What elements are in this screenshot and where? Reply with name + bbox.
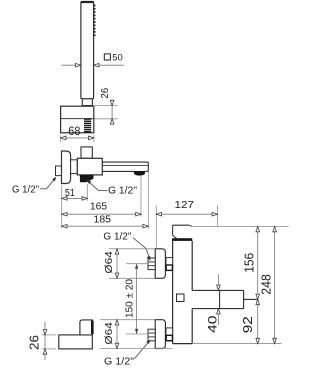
dimension 185 arrows <box>62 224 67 228</box>
handshower head top edge (thick) <box>81 1 94 3</box>
leader G 1/2 bottom <box>135 342 150 359</box>
svg-text:50: 50 <box>112 52 123 63</box>
dimension 127 arrows <box>156 212 161 216</box>
svg-text:Ø64: Ø64 <box>103 251 115 274</box>
svg-text:156: 156 <box>242 253 256 273</box>
dimension 127 left extension <box>155 205 157 249</box>
dimension 40 lower line <box>217 309 219 325</box>
bracket clip (dark) <box>91 321 94 334</box>
dimension 92 arrows <box>256 299 260 304</box>
dimension 92 line <box>257 299 259 343</box>
dimension 26 extension line lower <box>94 118 117 120</box>
dimension diam64 top arrows <box>115 249 119 254</box>
dimension 51/165/185 common left extension <box>61 185 63 228</box>
wall flange (escutcheon, side) <box>62 151 71 184</box>
dimension 26 arrows <box>43 330 47 335</box>
bottom extension line <box>192 343 281 345</box>
svg-text:G 1/2": G 1/2" <box>104 357 134 368</box>
dimension 51 line <box>62 197 88 199</box>
dimension 127 right extension <box>216 205 218 226</box>
bottom union center line <box>126 333 148 335</box>
leader arrow G 1/2 bottom <box>146 340 150 344</box>
dimension diam64 top line <box>116 249 118 278</box>
top union connector lower detail <box>166 265 172 270</box>
dimension square-50 arrow left <box>76 63 81 67</box>
shower holder block <box>61 106 94 133</box>
body left edge <box>172 241 174 344</box>
hose nipple below body (dark) <box>80 175 94 182</box>
dimension 165 line <box>62 213 141 215</box>
svg-text:92: 92 <box>240 316 255 333</box>
top extension line (reference for 156/248) <box>192 226 289 228</box>
aerator (dark) <box>134 171 145 176</box>
body top step edge <box>173 224 190 226</box>
dimension 26 arrow upper <box>110 100 114 105</box>
svg-text:G 1/2": G 1/2" <box>103 232 131 243</box>
dimension 68 extension left <box>60 135 62 142</box>
spray nozzle dashes on right edge <box>94 5 96 36</box>
top union escutcheon <box>155 249 165 278</box>
dimension 40 arrows <box>217 285 221 290</box>
chamfer to dark band <box>173 235 177 238</box>
dimension 185 line <box>62 225 149 227</box>
spout inner edge <box>219 290 221 308</box>
bracket arm <box>59 335 93 349</box>
dimension 26 arrow lower <box>110 119 114 124</box>
dimension 68 line <box>61 137 94 139</box>
svg-text:127: 127 <box>175 200 195 211</box>
dimension 165 right extension <box>140 176 142 217</box>
holder stem stub on body top <box>81 147 92 158</box>
dimension 150+-20 arrows <box>135 264 138 269</box>
spout center stub line <box>244 298 258 300</box>
dimension 26 extension upper <box>42 334 57 336</box>
leader G 1/2 top <box>133 238 149 258</box>
bottom union connector lower detail <box>166 335 172 340</box>
svg-text:G 1/2": G 1/2" <box>108 185 137 196</box>
body bottom edge <box>173 343 193 345</box>
holder block inner line <box>61 118 94 120</box>
leader G 1/2 left <box>40 178 55 189</box>
dimension diam64 bottom line <box>116 320 118 349</box>
spout end edge <box>147 162 149 171</box>
bottom union nut <box>148 329 155 341</box>
svg-text:165: 165 <box>90 202 107 213</box>
dimension 40 upper line <box>217 274 219 290</box>
dimension 51 arrows <box>62 197 67 201</box>
dimension 248 arrows <box>273 227 277 232</box>
dimension diam64 bottom: extensions <box>100 319 155 321</box>
small square detail on body <box>177 294 185 302</box>
svg-text:185: 185 <box>94 214 112 225</box>
spout end edge <box>243 290 245 308</box>
dimension 165 arrows <box>62 212 67 216</box>
top union nut <box>148 258 155 270</box>
spout bottom line after aerator <box>145 170 148 172</box>
body right edge upper <box>191 241 193 291</box>
bottom union connector <box>166 328 173 341</box>
dimension 185 right extension (from spout tip) <box>147 171 149 229</box>
dimension 156 line <box>257 227 259 300</box>
leader arrow G 1/2 right <box>86 180 91 184</box>
top union nut facet lines <box>148 261 155 263</box>
bracket cup <box>80 320 92 335</box>
neck between flange and body <box>71 160 78 174</box>
dimension 26 line <box>111 100 113 125</box>
svg-text:G 1/2": G 1/2" <box>12 184 39 195</box>
dimension diam64 bottom arrows <box>115 320 119 325</box>
handshower handle <box>81 2 94 99</box>
dimension 68 extension right <box>93 135 95 142</box>
spout inner line <box>102 165 148 167</box>
step jog <box>189 225 192 226</box>
body right edge lower <box>191 309 193 344</box>
dimension 51 right extension <box>86 184 88 201</box>
dimension 68 arrow left <box>61 136 66 140</box>
spout top line <box>102 161 148 163</box>
dimension 150+-20 line <box>136 264 138 334</box>
dimension square-50 line right part <box>94 64 124 66</box>
wall inlet fitting behind flange <box>56 166 62 176</box>
spout bottom line <box>102 170 134 172</box>
dimension 248 line <box>274 227 276 344</box>
mixer body (side) <box>77 158 102 175</box>
svg-text:248: 248 <box>260 274 274 295</box>
dimension 127 line <box>156 213 217 215</box>
spout (right view) top edge <box>192 289 243 291</box>
hose spring coil <box>84 119 91 132</box>
dimension 26 extension line upper <box>94 105 117 107</box>
body back upper edge <box>172 225 174 235</box>
svg-text:150 ± 20: 150 ± 20 <box>124 279 135 318</box>
dimension 68 arrow right <box>89 136 94 140</box>
bottom union nut facet lines <box>148 332 155 334</box>
leader arrow G 1/2 top <box>147 256 151 261</box>
handshower connector <box>82 99 92 106</box>
dimension square-50 line left part <box>61 64 81 66</box>
dimension diam64 top: extensions <box>109 248 155 250</box>
bottom union escutcheon <box>155 320 165 349</box>
top union connector <box>166 258 173 271</box>
svg-text:68: 68 <box>68 124 80 138</box>
dark band body top <box>172 238 192 241</box>
svg-text:40: 40 <box>205 315 219 333</box>
dimension 26 line <box>44 322 46 361</box>
dimension 26 extension lower <box>42 348 57 350</box>
svg-text:26: 26 <box>100 87 111 98</box>
dimension 156 arrows <box>256 227 260 232</box>
spout bottom edge <box>192 308 243 310</box>
top union center line <box>126 263 148 265</box>
svg-text:Ø64: Ø64 <box>103 322 115 345</box>
dimension square-50 arrow right <box>94 63 99 67</box>
label square-50 square glyph <box>104 54 110 60</box>
leader arrow G 1/2 left <box>52 177 56 182</box>
leader G 1/2 right <box>89 182 107 191</box>
svg-text:26: 26 <box>27 335 42 350</box>
svg-text:51: 51 <box>65 188 75 199</box>
